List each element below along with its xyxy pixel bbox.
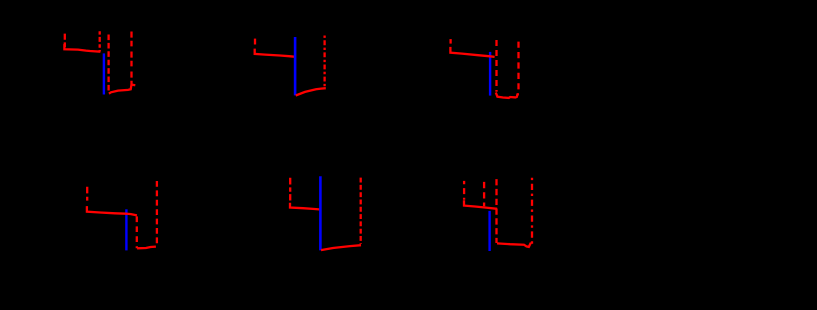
S1 mid-eclipse marker (blue): [103, 53, 105, 94]
S4 contact line t0 (left red dashed stub): [86, 187, 88, 204]
S2 light curve in-eclipse (red solid): [296, 88, 326, 95]
S3 contact line t0 (left red dashed stub): [449, 39, 451, 44]
S5 light curve in-eclipse (red solid): [321, 245, 361, 250]
S4 light curve pre-ingress (red solid, over blue): [87, 206, 137, 215]
S6 contact line t0 (left red dashed stub): [463, 181, 465, 200]
S3 contact line t3 (red dashed): [517, 42, 519, 94]
S6 mid-eclipse marker (blue): [488, 211, 490, 251]
S1 contact line t3 (red dashed): [130, 32, 132, 85]
S2 contact line t3 (red dashed): [323, 36, 325, 87]
S5 contact line t0 (left red dashed stub): [289, 178, 291, 201]
S3 contact line t1 (red dashed): [495, 40, 497, 92]
S1 light curve pre-ingress (red solid): [64, 44, 100, 52]
S4 contact line t3 (red dashed): [156, 181, 158, 247]
S5 mid-eclipse marker (blue, over curve): [319, 176, 322, 250]
S6 contact line t2 (red dashed): [495, 179, 497, 243]
S6 contact line t1 (red dashed): [483, 182, 485, 206]
S1 contact line t2 (red dashed): [107, 35, 109, 92]
S3 light curve in-eclipse (red solid): [496, 93, 519, 98]
S2 mid-eclipse marker (blue, over curve): [294, 37, 297, 95]
S4 model ingress drop (red dashed vertical): [136, 216, 138, 248]
S5 contact line t3 (red dashed): [360, 178, 362, 244]
S4 mid-eclipse marker (blue, under curve): [125, 209, 127, 250]
S6 light curve in-eclipse (red solid): [497, 243, 531, 247]
S6 light curve pre-ingress (red solid): [464, 200, 497, 209]
S4 light curve in-eclipse (red solid): [137, 247, 156, 249]
S6 contact line t3 (red dashed): [531, 178, 533, 244]
S3 light curve pre-ingress (red solid, over blue): [450, 47, 494, 57]
S2 contact line t0 (left red dashed stub): [254, 39, 256, 47]
S5 light curve pre-ingress (red solid): [290, 203, 321, 210]
S1 contact line t0 (left red dashed stub): [64, 34, 66, 47]
S2 light curve pre-ingress (red solid): [255, 49, 295, 57]
S3 mid-eclipse marker (blue, under curve): [489, 52, 491, 96]
S1 light curve in-eclipse (red solid): [109, 85, 135, 94]
S1 contact line t1 (red dashed): [99, 31, 101, 51]
